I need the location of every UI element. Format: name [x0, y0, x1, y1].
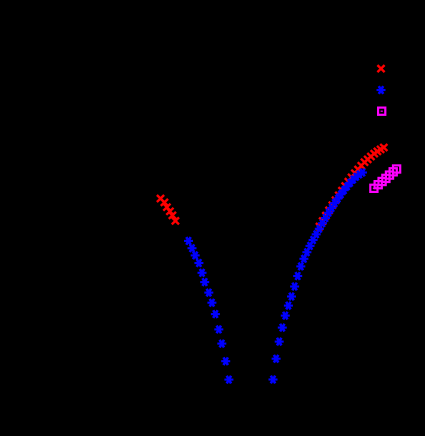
- magenta series box markers: [370, 165, 400, 192]
- legend red x sample: [377, 65, 384, 72]
- blue series star markers, left branch: [184, 237, 233, 383]
- legend magenta box sample: [378, 108, 385, 115]
- red series x markers, left branch: [157, 195, 179, 224]
- blue series star markers, right branch: [269, 169, 368, 384]
- legend blue star sample: [377, 86, 386, 94]
- red series x markers, right branch: [316, 144, 388, 230]
